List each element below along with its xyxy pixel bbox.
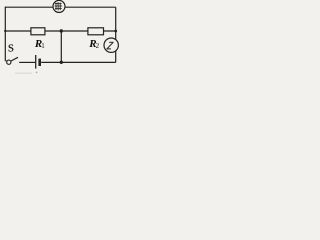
switch S (terminal circle + blade)	[7, 57, 18, 64]
node D (junction dot left vertical / middle wire)	[4, 30, 6, 32]
scan speck	[36, 72, 38, 74]
meter M (circle with pointer glyph)	[104, 38, 118, 52]
scan streak	[15, 73, 32, 74]
wire middle horizontal	[5, 30, 115, 32]
lamp L (circle with grid)	[53, 0, 65, 12]
wire bottom (switch to battery, battery to right corner)	[19, 61, 35, 63]
svg-text:2: 2	[96, 42, 100, 50]
wire switch connector	[5, 60, 7, 63]
resistor R1 box	[31, 28, 45, 35]
paper background	[0, 0, 121, 74]
svg-text:S: S	[8, 42, 14, 54]
wire branch vertical (node column)	[60, 31, 62, 62]
wire left vertical	[4, 7, 6, 61]
svg-text:1: 1	[41, 42, 45, 50]
node A (junction dot middle wire)	[60, 29, 63, 32]
node C (junction dot R2 right / right vertical)	[114, 30, 117, 33]
battery (long plate + short thick plate)	[36, 55, 41, 69]
wire right vertical	[115, 7, 117, 62]
node B (junction dot bottom wire)	[60, 61, 63, 64]
resistor R2 box	[88, 28, 104, 35]
wire top (y=7.2 from left corner to right corner)	[5, 6, 115, 8]
